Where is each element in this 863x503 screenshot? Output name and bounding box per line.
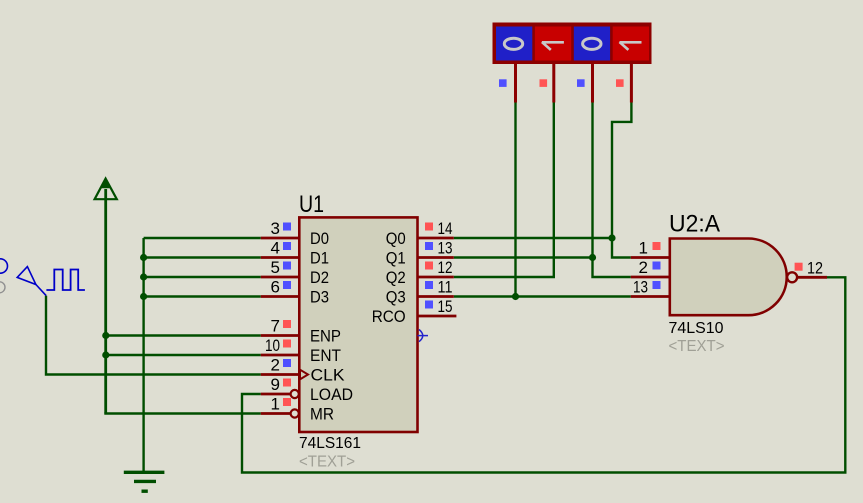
U1 pin 12 state square xyxy=(425,262,433,270)
svg-text:5: 5 xyxy=(271,258,280,277)
junction dot switch1/Q3 xyxy=(512,293,519,300)
svg-text:7: 7 xyxy=(271,317,280,336)
switch 2 digit 1 xyxy=(542,42,564,50)
switch 4 pin stub xyxy=(630,64,633,103)
U1 pin 10 state square xyxy=(283,340,291,348)
svg-text:D2: D2 xyxy=(310,268,329,287)
switch 1 digit 0 xyxy=(504,38,522,49)
U1 pin 7 stub xyxy=(261,334,300,337)
svg-text:14: 14 xyxy=(438,219,453,238)
junction dot D3 xyxy=(140,293,147,300)
U2:A pin 13 state square xyxy=(653,281,661,289)
U1 pin 15 RCO stub xyxy=(418,315,457,318)
switch 3 cell blue xyxy=(574,27,610,61)
wire CLK from generator xyxy=(46,296,261,375)
svg-text:2: 2 xyxy=(271,356,280,375)
switch 4 digit 1 xyxy=(620,42,642,50)
U2:A output bubble xyxy=(787,272,797,282)
svg-text:D1: D1 xyxy=(310,249,329,268)
wire D0 xyxy=(144,237,261,239)
U1 pin 6 stub xyxy=(261,295,300,298)
U1 chip body xyxy=(299,217,417,432)
wire D3 xyxy=(144,295,261,297)
power symbol arrow xyxy=(95,179,117,200)
junction dot ENT xyxy=(102,351,109,358)
U1 pin 9 state square xyxy=(283,379,291,387)
U1 pin 4 stub xyxy=(261,256,300,259)
wire Q1 xyxy=(454,256,593,258)
switch 3 state square xyxy=(577,79,585,87)
switch 1 state square xyxy=(499,79,507,87)
U1 pin 13 stub xyxy=(418,256,454,259)
wire Q2 to switch 2 xyxy=(454,103,554,278)
U1 pin 1 state square xyxy=(283,398,291,406)
svg-text:13: 13 xyxy=(438,239,453,258)
clock generator gray arc xyxy=(0,282,5,293)
U1 pin 7 state square xyxy=(283,320,291,328)
svg-text:74LS161: 74LS161 xyxy=(299,435,361,452)
wire switch 4 to NAND pin 1 xyxy=(612,103,631,258)
svg-text:74LS10: 74LS10 xyxy=(669,320,724,337)
U1 LOAD bubble xyxy=(291,390,299,398)
wire D1 xyxy=(144,256,261,258)
svg-text:U1: U1 xyxy=(299,191,324,218)
switch 4 state square xyxy=(616,79,624,87)
junction dot D1 xyxy=(140,254,147,261)
U1 pin 2 state square xyxy=(283,359,291,367)
switch 3 digit 0 xyxy=(583,38,601,49)
svg-text:6: 6 xyxy=(271,278,280,297)
wire switch 3 to NAND pin 2 xyxy=(593,103,631,278)
wire MR from power rail xyxy=(104,412,260,414)
U1 pin 9 LOAD stub xyxy=(261,393,291,396)
junction dot ENP xyxy=(102,332,109,339)
switch 1 pin stub xyxy=(514,64,517,103)
U1 pin 14 stub xyxy=(418,237,454,240)
svg-text:2: 2 xyxy=(639,258,648,277)
svg-text:Q2: Q2 xyxy=(386,268,406,287)
switch 2 state square xyxy=(540,79,548,87)
U2:A pin 13 stub xyxy=(631,295,670,298)
switch 2 cell red xyxy=(535,27,571,61)
wire D2 xyxy=(144,276,261,278)
U2:A pin 2 stub xyxy=(631,276,670,279)
svg-text:12: 12 xyxy=(807,258,823,277)
svg-text:11: 11 xyxy=(438,278,453,297)
svg-text:D3: D3 xyxy=(310,288,329,307)
U2:A NAND gate body xyxy=(670,239,787,316)
clock generator partial circle xyxy=(0,259,8,273)
U1 pin 2 CLK stub xyxy=(261,373,300,376)
svg-text:Q3: Q3 xyxy=(386,288,406,307)
svg-text:U2:A: U2:A xyxy=(669,211,720,238)
U2:A pin 2 state square xyxy=(653,262,661,270)
switch 3 pin stub xyxy=(591,64,594,103)
U2:A pin 12 output stub xyxy=(797,276,827,279)
svg-text:3: 3 xyxy=(271,219,280,238)
U1 pin 1 MR stub xyxy=(261,412,291,415)
svg-text:1: 1 xyxy=(639,239,648,258)
ground symbol xyxy=(124,472,165,491)
U1 pin 4 state square xyxy=(283,242,291,250)
logic state switch block outer box xyxy=(493,23,652,65)
U1 hidden pin marker blue xyxy=(418,330,429,342)
svg-text:ENT: ENT xyxy=(310,346,341,365)
wire switch 1 to Q3 xyxy=(514,103,516,297)
svg-text:MR: MR xyxy=(310,405,334,424)
U1 pin 5 state square xyxy=(283,262,291,270)
svg-text:1: 1 xyxy=(271,395,280,414)
svg-text:Q0: Q0 xyxy=(386,229,406,248)
wire Q0 xyxy=(454,237,612,239)
svg-text:LOAD: LOAD xyxy=(310,385,353,404)
U1 pin 15 state square xyxy=(425,301,433,309)
U1 pin 3 stub xyxy=(261,237,300,240)
wire Q3 to NAND pin 13 xyxy=(454,295,631,297)
svg-text:D0: D0 xyxy=(310,229,329,248)
U1 MR bubble xyxy=(291,409,299,417)
U2:A pin 12 state square xyxy=(795,263,803,271)
svg-text:RCO: RCO xyxy=(372,307,406,326)
U1 CLK triangle xyxy=(300,370,308,380)
wire power rail vertical xyxy=(104,199,107,413)
svg-text:<TEXT>: <TEXT> xyxy=(299,454,355,471)
clock generator CLK symbol triangle xyxy=(17,267,36,285)
svg-text:CLK: CLK xyxy=(311,366,346,385)
switch 4 cell red xyxy=(613,27,649,61)
wire LOAD feedback xyxy=(242,277,845,472)
svg-text:13: 13 xyxy=(633,278,648,297)
U2:A pin 1 stub xyxy=(631,256,670,259)
U1 pin 6 state square xyxy=(283,281,291,289)
U1 pin 3 state square xyxy=(283,223,291,231)
U1 pin 11 state square xyxy=(425,281,433,289)
junction dot switch3/Q1 xyxy=(589,254,596,261)
switch 2 pin stub xyxy=(552,64,555,103)
svg-text:9: 9 xyxy=(271,375,280,394)
svg-text:15: 15 xyxy=(438,297,453,316)
svg-text:12: 12 xyxy=(438,258,453,277)
svg-text:10: 10 xyxy=(265,336,280,355)
U1 pin 12 stub xyxy=(418,276,454,279)
U1 pin 5 stub xyxy=(261,276,300,279)
clock generator square wave xyxy=(46,270,85,291)
switch 1 cell blue xyxy=(496,27,532,61)
junction dot D2 xyxy=(140,273,147,280)
U1 pin 14 state square xyxy=(425,223,433,231)
clock generator pointer line xyxy=(36,285,46,296)
svg-text:Q1: Q1 xyxy=(386,249,406,268)
junction dot switch4/Q0 xyxy=(608,234,615,241)
U1 pin 10 stub xyxy=(261,354,300,357)
wire ENT from power rail xyxy=(106,354,261,356)
wire ground rail vertical xyxy=(142,238,144,472)
U1 pin 13 state square xyxy=(425,242,433,250)
U2:A pin 1 state square xyxy=(653,242,661,250)
wire ENP from power rail xyxy=(106,334,261,336)
U1 pin 11 stub xyxy=(418,295,454,298)
svg-text:ENP: ENP xyxy=(310,327,341,346)
svg-text:<TEXT>: <TEXT> xyxy=(669,338,725,355)
svg-text:4: 4 xyxy=(271,239,280,258)
